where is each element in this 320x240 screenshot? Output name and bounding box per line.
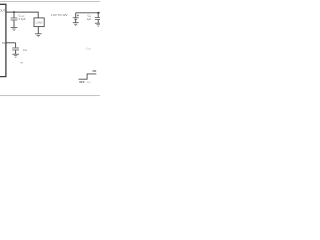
svg-text:TA02: TA02 xyxy=(86,81,92,84)
svg-text:OFF: OFF xyxy=(79,80,85,84)
svg-text:OUT: OUT xyxy=(0,9,6,13)
svg-text:3.3µF: 3.3µF xyxy=(18,17,25,21)
svg-text:t 5µs: t 5µs xyxy=(86,47,92,50)
svg-text:1.8V TO 12V: 1.8V TO 12V xyxy=(51,13,68,17)
svg-text:1µF: 1µF xyxy=(87,17,92,21)
svg-text:SS: SS xyxy=(2,41,6,45)
svg-text:ON: ON xyxy=(92,69,96,73)
svg-text:LOAD: LOAD xyxy=(36,21,43,24)
